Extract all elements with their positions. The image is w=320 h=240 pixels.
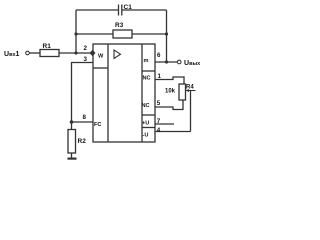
svg-text:FC: FC xyxy=(94,122,101,128)
svg-text:W: W xyxy=(98,54,104,60)
svg-text:R4: R4 xyxy=(186,85,194,91)
svg-text:Uвх1: Uвх1 xyxy=(4,51,20,58)
svg-text:NC: NC xyxy=(143,76,151,82)
svg-text:3: 3 xyxy=(84,56,88,63)
svg-text:NC: NC xyxy=(142,103,150,109)
svg-text:2: 2 xyxy=(84,45,88,52)
svg-text:R2: R2 xyxy=(78,138,87,145)
svg-text:-U: -U xyxy=(143,133,149,139)
svg-text:8: 8 xyxy=(83,114,87,121)
svg-text:10k: 10k xyxy=(165,89,176,95)
svg-text:6: 6 xyxy=(157,52,161,59)
svg-text:5: 5 xyxy=(157,100,161,107)
svg-text:R3: R3 xyxy=(115,22,124,29)
svg-text:7: 7 xyxy=(157,118,161,125)
svg-text:+U: +U xyxy=(142,121,149,127)
svg-text:R1: R1 xyxy=(43,43,52,50)
svg-text:Uвых: Uвых xyxy=(184,60,201,67)
svg-text:C1: C1 xyxy=(124,4,133,11)
svg-text:m: m xyxy=(144,58,149,64)
svg-text:4: 4 xyxy=(157,127,161,134)
svg-text:1: 1 xyxy=(158,73,162,80)
